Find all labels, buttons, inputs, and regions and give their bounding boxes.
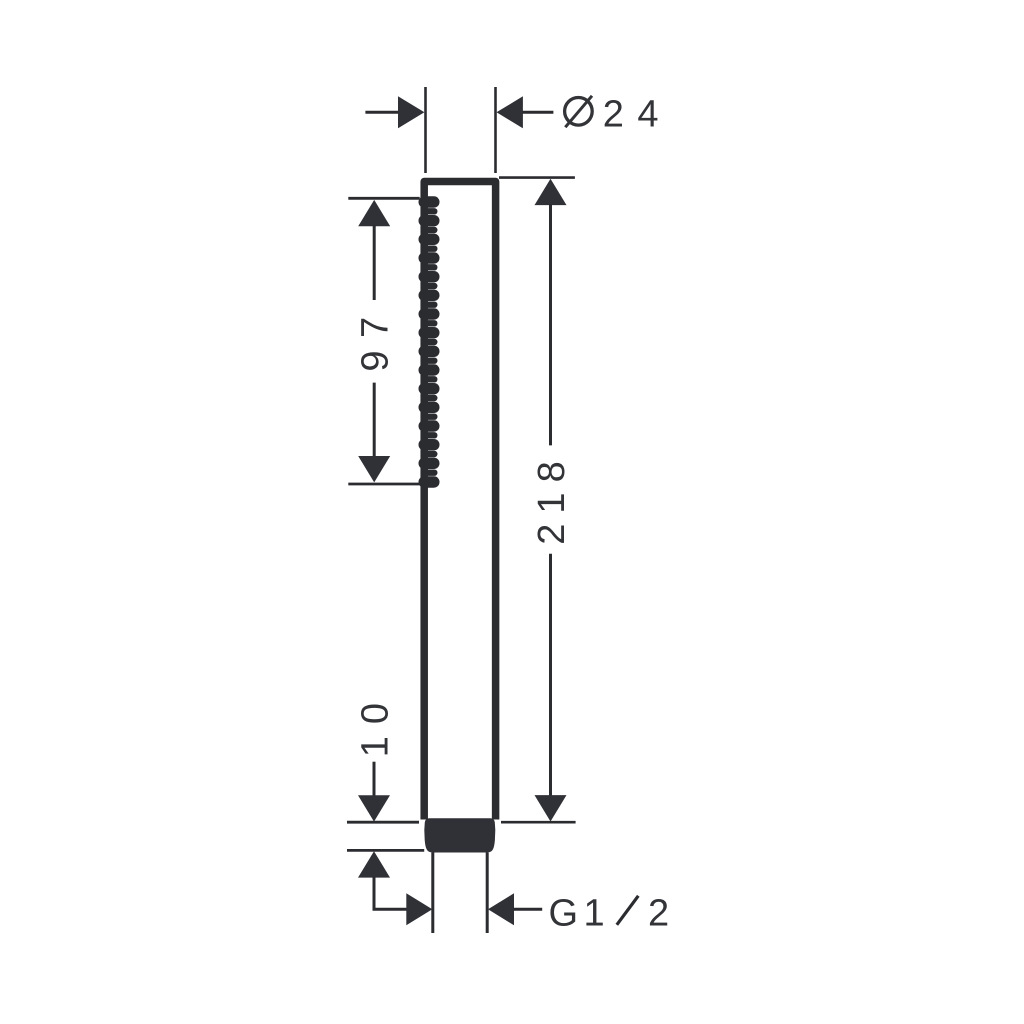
dimension 97 : lower dim line: [373, 383, 376, 458]
dimension G1/2 : right-pointing arrowhead: [406, 893, 432, 925]
dimension G1/2 : right tail line: [513, 908, 542, 911]
dimension Ø24 : left tail line: [365, 111, 399, 114]
dimension 218 : bottom extension line: [501, 821, 576, 824]
dimension 218 : lower dim line: [549, 554, 552, 797]
dimension 218 : upper dim line: [549, 204, 552, 445]
dimension Ø24 : right-pointing arrowhead: [398, 96, 424, 128]
dimension 10 : bottom extension line: [347, 849, 424, 852]
svg-text:1: 1: [584, 893, 605, 935]
G1/2 thread connector right line: [486, 853, 489, 934]
dimension 218 : label: [531, 451, 573, 544]
dimension Ø24 : right tail line: [522, 111, 553, 114]
dimension G1/2 : label: [549, 893, 670, 935]
dimension 10 : leader elbow line: [374, 877, 407, 910]
spray nozzle teeth: [419, 196, 440, 487]
svg-text:97: 97: [355, 304, 397, 371]
dimension Ø24 : left-pointing arrowhead: [497, 96, 523, 128]
dimension 97 : bottom extension line: [348, 483, 419, 486]
dimension G1/2 : left-pointing arrowhead: [488, 893, 514, 925]
dimension Ø24 : right extension line: [494, 87, 497, 173]
shower handle body outline: [424, 182, 495, 820]
svg-text:218: 218: [531, 451, 573, 544]
svg-text:24: 24: [603, 94, 672, 136]
dimension 97 : down arrowhead: [358, 456, 390, 482]
dimension Ø24 : label: [565, 94, 672, 136]
dimension Ø24 : left extension line: [424, 87, 427, 173]
dimension 10 : down arrowhead: [358, 795, 390, 821]
dimension 10 : top extension line: [347, 821, 419, 824]
knurled ring: [424, 818, 495, 852]
dimension 218 : top extension line: [499, 176, 575, 179]
svg-text:10: 10: [355, 691, 397, 757]
dimension 218 : up arrowhead: [535, 179, 567, 205]
G1/2 thread connector left line: [431, 853, 434, 934]
dimension 218 : down arrowhead: [535, 795, 567, 821]
dimension 10 : label: [355, 691, 397, 757]
dimension 10 : up arrowhead below: [358, 851, 390, 877]
dimension 97 : top extension line: [348, 197, 419, 200]
dimension 97 : up arrowhead: [358, 200, 390, 226]
dimension 10 : upper dim line: [373, 762, 376, 797]
dimension 97 : upper dim line: [373, 225, 376, 300]
svg-text:2: 2: [648, 893, 669, 935]
svg-text:G: G: [549, 893, 579, 935]
dimension 97 : label: [355, 304, 397, 371]
